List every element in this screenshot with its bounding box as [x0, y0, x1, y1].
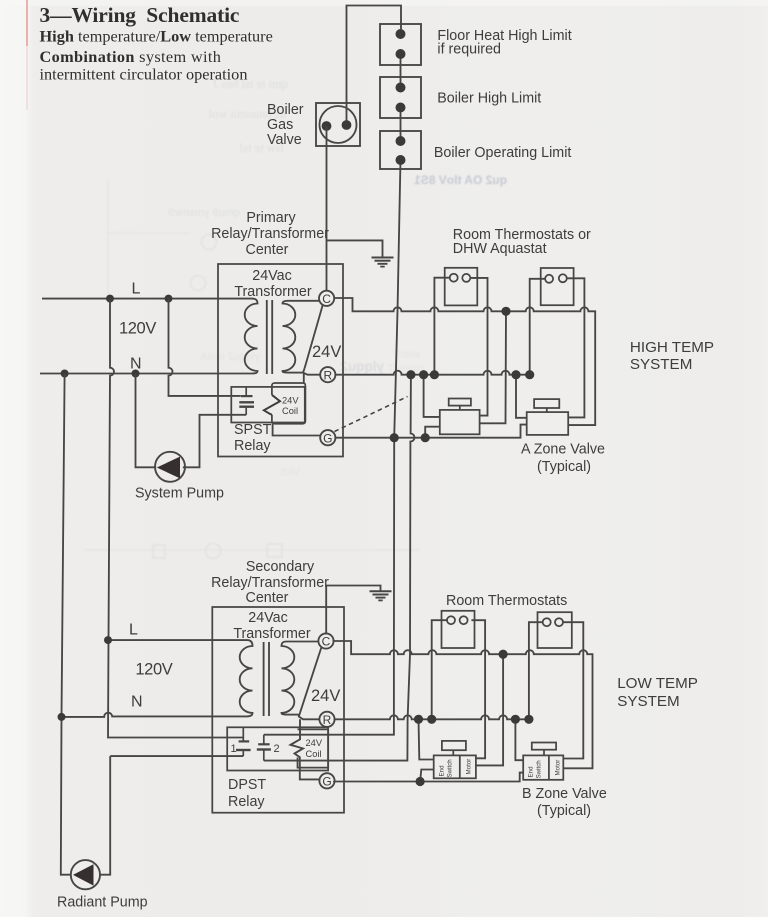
svg-text:24V: 24V	[306, 738, 323, 748]
svg-text:L: L	[132, 281, 141, 298]
wire: B thermostat2 left terminal down to R	[529, 622, 543, 719]
label: LOW TEMP SYSTEM	[617, 675, 698, 710]
svg-text:tsomrlT: tsomrlT	[387, 363, 424, 375]
svg-text:Primary: Primary	[246, 210, 296, 226]
svg-text:Combination system with: Combination system with	[40, 47, 222, 66]
terminal G (primary)	[320, 430, 335, 445]
label: DPST Relay	[228, 777, 266, 810]
svg-text:ylqqu2 mslA: ylqqu2 mslA	[199, 351, 260, 363]
svg-text:End: End	[528, 766, 535, 778]
svg-text:Secondary: Secondary	[246, 559, 315, 575]
wire: L dot x110 down to secondary L (hop over N)	[108, 299, 243, 738]
svg-text:2: 2	[274, 743, 280, 755]
wire: R line (secondary) with hops	[334, 715, 529, 719]
junction dot secondary N	[58, 713, 66, 721]
svg-text:High temperature/Low temperatu: High temperature/Low temperature	[40, 27, 273, 46]
wire: G dot up to A motor1 lower left	[425, 427, 440, 438]
svg-text:G: G	[322, 775, 331, 789]
A zone valve 2 motor box	[527, 399, 569, 435]
wire: G line (primary) to A zone valve 2	[334, 425, 526, 438]
dot R x528.9	[524, 715, 533, 724]
wire: thermostat1 left terminal down to R	[434, 278, 449, 375]
secondary center box	[212, 607, 344, 813]
svg-text:Gas: Gas	[267, 117, 293, 133]
dot C-feed x506	[501, 307, 510, 316]
junction dots high temp	[390, 307, 535, 443]
label: B Zone Valve (Typical)	[522, 786, 607, 819]
svg-text:Valve: Valve	[267, 132, 302, 148]
wire: C feed line (secondary) with hops	[333, 641, 593, 768]
junction dot on L at x=110	[106, 295, 114, 303]
label: 24V Coil	[282, 396, 299, 416]
svg-text:24V: 24V	[311, 687, 340, 705]
boiler gas valve	[316, 103, 360, 146]
junction dot on L at x=168.5	[165, 295, 173, 303]
top edge lightening	[0, 0, 768, 6]
svg-text:ylqqu2: ylqqu2	[340, 359, 384, 374]
limit switch 3: Boiler Operating Limit	[380, 131, 421, 169]
wire: radiant pump right lead up	[99, 756, 110, 875]
wire: L dot x168.5 down to SPST contact top (hop over N)	[169, 299, 241, 396]
label: SPST Relay	[234, 422, 272, 454]
label: Boiler Gas Valve	[267, 102, 304, 148]
label: A Zone Valve (Typical)	[521, 442, 605, 476]
labels: limit switches	[434, 28, 572, 161]
dot C-feed x503.1	[499, 650, 508, 659]
svg-text:C: C	[322, 292, 331, 306]
terminal C (secondary)	[318, 633, 333, 648]
transformer T2 primary coil	[240, 640, 253, 716]
wire: R dot down to A motor1 upper left	[424, 375, 440, 417]
primary ground tap wire	[327, 240, 383, 256]
svg-text:24V: 24V	[282, 396, 299, 406]
svg-text:120V: 120V	[119, 320, 156, 338]
svg-text:if required: if required	[437, 41, 501, 57]
svg-text:qmu9 ymsmir9: qmu9 ymsmir9	[168, 207, 240, 219]
dashed mechanical link from G	[335, 397, 408, 432]
wire: G line (secondary) to B zone valve 2	[334, 773, 524, 782]
thermostat B1	[442, 611, 475, 648]
svg-text:G: G	[323, 431, 332, 445]
svg-text:Relay: Relay	[228, 794, 265, 810]
wire: thermostat1 right terminal down to A motor1 upper right	[470, 278, 487, 416]
svg-text:Boiler: Boiler	[267, 102, 304, 118]
svg-text:Boiler Operating Limit: Boiler Operating Limit	[434, 145, 571, 161]
wire: R dot down to B motor1 upper left	[419, 719, 434, 759]
svg-text:(Typical): (Typical)	[537, 803, 591, 819]
wire: R dot down to B motor2 upper left	[515, 719, 523, 760]
secondary ground stub from C	[326, 586, 380, 635]
svg-text:C: C	[322, 635, 331, 649]
svg-text:intermittent circulator operat: intermittent circulator operation	[40, 65, 248, 84]
svg-text:Motor: Motor	[555, 760, 562, 776]
svg-text:SPST: SPST	[234, 422, 272, 438]
dot R x529.7	[525, 370, 534, 379]
wire: pivot down to coil + zigzag	[291, 719, 304, 770]
terminal R (secondary)	[319, 712, 334, 727]
thermostat A2	[541, 268, 574, 305]
scan edge artifact	[26, 0, 28, 46]
dot G x394.2	[390, 433, 399, 442]
svg-text:R: R	[323, 713, 332, 727]
svg-text:System Pump: System Pump	[135, 486, 224, 502]
transformer T1 primary coil	[245, 299, 258, 374]
wire: T2 secondary bottom to pivot	[287, 714, 299, 716]
ghost bleed-through layer	[85, 77, 507, 559]
svg-text:Coil: Coil	[306, 749, 322, 759]
switch pivot hook to R	[303, 369, 321, 375]
SPST contact (capacitor-like) symbol	[239, 387, 254, 415]
ground symbol (primary)	[372, 258, 394, 267]
label: 24Vac Transformer (secondary)	[233, 610, 311, 642]
label: Secondary Relay/Transformer Center	[211, 559, 329, 606]
terminal G (secondary)	[319, 773, 334, 788]
junction dot on N at x=135.5	[132, 370, 140, 378]
wire: valve right dot up and over to limit chain	[347, 6, 402, 124]
svg-text:Room Thermostats: Room Thermostats	[446, 593, 567, 609]
label: 24V Coil (secondary)	[306, 738, 323, 759]
switch pivot hook to R (secondary)	[299, 713, 321, 720]
label: Room Thermostats or DHW Aquastat	[453, 227, 591, 257]
transformer T2 secondary coil	[282, 642, 295, 715]
wire: contact2 top bus	[264, 734, 328, 736]
svg-text:3—Wiring Schematic: 3—Wiring Schematic	[40, 3, 240, 27]
svg-text:DHW Aquastat: DHW Aquastat	[453, 241, 547, 257]
svg-text:Relay: Relay	[234, 438, 271, 454]
dot G x425.2	[421, 433, 430, 442]
svg-text:Transformer: Transformer	[234, 284, 312, 300]
wire: N line (primary)	[40, 373, 252, 375]
wire: N dot x64.6 down to secondary N and radiant pump	[61, 374, 71, 875]
system pump	[155, 452, 185, 482]
dot G x420.1	[416, 777, 425, 786]
wire: L line (primary)	[42, 298, 252, 300]
svg-text:1: 1	[231, 743, 237, 755]
svg-text:SYSTEM: SYSTEM	[617, 693, 679, 710]
DPST relay box	[227, 727, 328, 770]
svg-text:Center: Center	[246, 590, 289, 606]
svg-text:B Zone Valve: B Zone Valve	[522, 786, 607, 802]
svg-text:Coil: Coil	[282, 406, 298, 416]
svg-text:Motor: Motor	[466, 759, 473, 775]
wire: C feed line (primary) with hops	[334, 298, 596, 425]
dot R x516	[511, 370, 520, 379]
dot R x423.6	[419, 370, 428, 379]
svg-text:Relay/Transformer: Relay/Transformer	[211, 226, 329, 242]
svg-text:(Typical): (Typical)	[537, 459, 591, 475]
wire: long vertical v1 limit chain / primary G node down to DPST contact2 top	[328, 159, 400, 735]
wire: L line (secondary)	[108, 639, 247, 641]
dot R x418.5	[414, 715, 423, 724]
svg-text:LOW TEMP: LOW TEMP	[617, 675, 698, 692]
switch arm C to pivot	[305, 304, 324, 369]
svg-text:qu2 OA tloV 8S1: qu2 OA tloV 8S1	[414, 173, 507, 187]
SPST relay box	[231, 387, 304, 423]
terminal C (primary)	[319, 291, 334, 306]
wire: limit box2 to box3	[400, 109, 402, 143]
terminal R (primary)	[320, 367, 335, 382]
wire: coil bottom to G	[300, 771, 320, 780]
thermostat A1	[445, 268, 478, 306]
transformer T2 core	[264, 642, 269, 716]
dot R x434.4	[430, 370, 439, 379]
svg-text:VAS: VAS	[280, 467, 300, 478]
label: 24Vac Transformer (primary)	[234, 268, 312, 300]
svg-text:Radiant Pump: Radiant Pump	[57, 895, 148, 911]
thermostat B2	[538, 612, 572, 648]
svg-text:HIGH TEMP: HIGH TEMP	[630, 339, 714, 356]
wire: valve left dot down to primary C	[326, 126, 328, 291]
wire: C feed dot down to A motor1 lower right	[480, 311, 506, 423]
dot R x410.9	[406, 370, 415, 379]
wire: radiant pump lead to contact1 bottom	[110, 755, 243, 757]
svg-text:24V: 24V	[312, 343, 341, 361]
wire: system pump right up to SPST contact bottom	[183, 415, 246, 468]
wire: pivot down into coil box	[303, 373, 305, 383]
wire: G dot up to B motor1 lower left	[420, 770, 434, 782]
svg-text:A Zone Valve: A Zone Valve	[521, 442, 605, 458]
label: Primary Relay/Transformer Center	[211, 210, 329, 258]
junction dot on N at x=64.6	[61, 370, 69, 378]
ground symbol (secondary)	[370, 591, 392, 600]
dot R x515.4	[511, 715, 520, 724]
svg-text:24Vac: 24Vac	[252, 268, 291, 284]
svg-text:Boiler High Limit: Boiler High Limit	[437, 91, 541, 107]
transformer T1 secondary coil	[283, 301, 296, 373]
A zone valve 1 motor box	[440, 399, 480, 435]
wire: C feed dot down to B motor1 lower right	[476, 654, 503, 765]
svg-text:24Vac: 24Vac	[248, 610, 287, 626]
switch arm C to pivot (secondary)	[300, 647, 322, 713]
wire: B thermostat1 right terminal down to B motor1 upper right	[471, 620, 485, 758]
wire: contact2 bottom bus	[264, 760, 328, 762]
svg-text:SYSTEM: SYSTEM	[630, 356, 692, 373]
radiant pump	[71, 860, 100, 889]
wire: thermostat2 left terminal down to R	[530, 279, 546, 375]
primary center box	[218, 264, 343, 457]
wire: R dot down to A motor2 upper left	[516, 375, 527, 418]
svg-text:End: End	[439, 765, 446, 777]
wire: T1 secondary top to C	[288, 300, 321, 302]
junction dot secondary L	[104, 636, 112, 644]
wire: T1 secondary bottom to switch pivot	[288, 372, 303, 374]
wire: limit box1 to box2	[400, 56, 402, 89]
label: HIGH TEMP SYSTEM	[630, 339, 714, 373]
B zone valve 2 box with End Switch / Motor	[523, 743, 563, 780]
coil zigzag	[264, 395, 280, 415]
wire: T2 secondary top to C	[287, 641, 320, 643]
junction dots low temp	[414, 650, 534, 787]
wire: thermostat2 right terminal down to A motor2 upper right	[567, 278, 585, 417]
svg-text:Center: Center	[246, 242, 289, 258]
svg-text:Switch: Switch	[447, 759, 454, 778]
wire: long vertical v2 primary R down to DPST contact2 bottom (hop at primary G line)	[328, 375, 414, 761]
svg-text:DPST: DPST	[228, 777, 266, 793]
B zone valve 1 box with End Switch / Motor	[434, 741, 476, 778]
svg-text:Switch: Switch	[536, 760, 543, 779]
wire: N dot x135.5 down to system pump	[136, 374, 157, 468]
wire: B thermostat1 left terminal down to R	[432, 620, 447, 719]
svg-text:R: R	[323, 368, 332, 382]
DPST contact 1 (capacitor-like)	[236, 727, 251, 756]
dot R x431.7	[427, 715, 436, 724]
svg-text:Relay/Transformer: Relay/Transformer	[211, 575, 329, 591]
limit switch 2: Boiler High Limit	[380, 77, 421, 118]
24V coil box (secondary)	[298, 729, 329, 767]
wire: coil box bottom down and right to G	[273, 424, 321, 436]
wire: N line (secondary) with hop at x108	[62, 713, 248, 717]
svg-text:N: N	[131, 694, 143, 711]
DPST contact 2 (capacitor-like)	[257, 735, 271, 761]
svg-text:L: L	[129, 621, 138, 638]
24V coil box (primary) with zigzag left edge	[272, 383, 306, 424]
svg-text:120V: 120V	[135, 661, 172, 679]
transformer T1 core	[267, 300, 272, 374]
wire: R line (primary) with hops	[334, 371, 529, 375]
wire: B thermostat2 right terminal down to B motor2 upper right	[563, 622, 583, 758]
limit switch 1: Floor Heat High Limit	[380, 24, 421, 65]
